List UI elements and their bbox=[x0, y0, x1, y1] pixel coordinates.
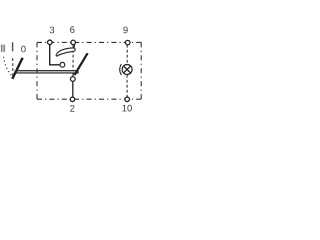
label 3 bbox=[50, 27, 55, 34]
terminal 2 bbox=[70, 97, 75, 102]
wire: dashed actuator line to position I bbox=[12, 58, 14, 76]
label II (actuator position II) bbox=[1, 45, 5, 52]
label 2 bbox=[70, 105, 74, 112]
switch housing outline bottom edge bbox=[37, 98, 141, 100]
terminal 3 bbox=[48, 40, 53, 45]
wire: dashed line from terminal 6 down bbox=[72, 45, 74, 70]
terminal 6 bbox=[71, 40, 76, 45]
mechanical link (double line) bbox=[16, 71, 78, 73]
wire: dashed line lamp to terminal 10 bbox=[126, 75, 128, 97]
link from terminal 6 to wedge bbox=[73, 45, 76, 48]
movable contact wedge bbox=[56, 48, 75, 56]
wire: dotted actuator arc to position II bbox=[4, 57, 13, 77]
label 10 bbox=[122, 105, 131, 112]
lamp L1 (illumination) bbox=[120, 64, 132, 75]
blade pivot contact circle bbox=[70, 77, 75, 82]
lever (actuator, position 0) bbox=[12, 58, 22, 79]
label 6 bbox=[70, 26, 74, 33]
label 0 (actuator position 0) bbox=[21, 46, 26, 53]
terminal 9 bbox=[125, 40, 130, 45]
switch blade bbox=[75, 53, 88, 75]
fixed contact circle bbox=[60, 62, 65, 67]
switch housing outline right edge bbox=[140, 42, 142, 99]
switch housing outline left edge bbox=[36, 42, 38, 99]
wire: dashed line terminal 9 to lamp bbox=[126, 45, 128, 65]
label I (actuator position I tick) bbox=[12, 42, 13, 51]
link from mechanical band down to pivot bbox=[72, 73, 74, 76]
wire from pivot to terminal 2 bbox=[72, 81, 74, 97]
wire from terminal 3 to fixed contact bbox=[50, 45, 60, 65]
terminal 10 bbox=[125, 97, 130, 102]
label 9 bbox=[123, 27, 127, 34]
switch housing outline (dash-dot box) top edge bbox=[37, 41, 141, 43]
